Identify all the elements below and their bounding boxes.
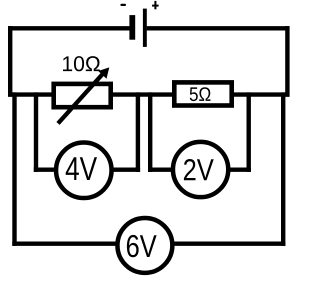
wire 2V meter right stub — [227, 167, 251, 171]
voltmeter V2 2V circle — [173, 142, 228, 197]
wire right rail upper — [285, 26, 289, 97]
battery B1 plus label — [152, 1, 159, 9]
voltmeter V1 4V circle — [56, 143, 112, 199]
wire 4V meter left stub — [34, 167, 57, 171]
voltmeter V1 reading 4V — [66, 157, 97, 180]
voltmeter V3 reading 6V — [127, 235, 157, 257]
wire bottom-right (from voltmeter 6V) — [173, 241, 285, 245]
resistor R2 5Ω box — [174, 82, 231, 105]
battery B1 minus label — [120, 4, 126, 6]
battery B1 negative plate — [129, 15, 135, 40]
resistor R1 10Ω (variable) box — [54, 84, 111, 107]
wire 2V meter left drop — [148, 92, 152, 171]
resistor R2 value label 5Ω — [190, 87, 211, 101]
voltmeter V3 6V circle — [117, 218, 172, 273]
wire bottom-left (to voltmeter 6V) — [12, 241, 117, 245]
wire top-left (battery negative to left rail) — [8, 26, 130, 30]
resistor R1 wiper arrowhead — [98, 67, 109, 78]
wire middle bus (resistor row) — [8, 92, 290, 96]
wire right rail lower — [281, 92, 285, 246]
voltmeter V2 reading 2V — [184, 159, 214, 180]
wire 4V meter right drop — [136, 92, 140, 171]
wire 4V meter left drop — [34, 92, 38, 171]
wire 2V meter right drop — [246, 92, 250, 171]
battery B1 positive plate — [143, 9, 147, 47]
wire left rail lower — [12, 92, 16, 246]
wire 2V meter left stub — [148, 167, 174, 171]
wire left rail upper — [8, 26, 12, 97]
wire top-right (battery positive to right rail) — [147, 26, 290, 30]
resistor R1 value label 10Ω — [63, 56, 100, 71]
resistor R1 wiper arrow shaft — [58, 73, 104, 123]
wire 4V meter right stub — [111, 167, 140, 171]
